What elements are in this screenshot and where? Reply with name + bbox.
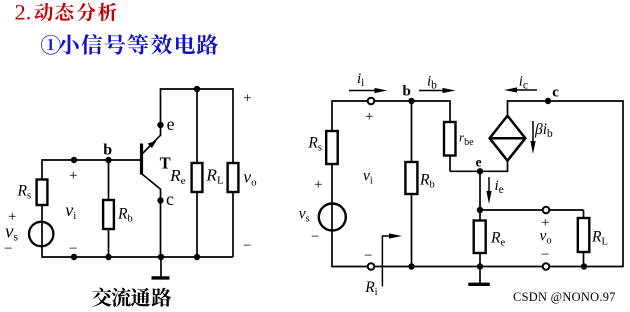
title line 1: 2.动态分析: [15, 0, 117, 25]
resistor Re (right): [474, 221, 486, 254]
wire: rbe bottom to e level: [449, 155, 451, 171]
wire: left edge through Rs and vs: [41, 159, 43, 258]
svg-text:Re: Re: [490, 230, 505, 249]
terminal open circle vi- (bottom): [368, 263, 375, 270]
transistor T: emitter diagonal: [142, 135, 161, 154]
svg-text:T: T: [160, 153, 171, 172]
wire: rbe drop: [449, 101, 451, 123]
resistor Rb (right): [405, 162, 417, 194]
title line 2: ①小信号等效电路: [41, 34, 218, 55]
svg-text:+: +: [541, 215, 549, 231]
wire: Re bottom connection: [196, 191, 198, 257]
resistor Re (left): [192, 163, 203, 192]
wire: Rb bottom to rail: [108, 229, 110, 258]
wire: vo horizontal: [480, 209, 584, 211]
resistor Rb (left): [103, 200, 114, 229]
wire: diamond top stub: [507, 101, 509, 117]
svg-text:RL: RL: [591, 228, 608, 247]
wire: diamond bottom stub: [507, 159, 509, 172]
svg-text:vi: vi: [65, 200, 76, 222]
svg-text:Ri: Ri: [364, 279, 377, 298]
node dot Rb bottom (left): [105, 254, 111, 260]
terminal open circle vo+: [543, 207, 550, 214]
svg-text:+: +: [314, 177, 322, 193]
svg-text:−: −: [311, 229, 319, 245]
wire: Rb drop from b: [411, 101, 413, 163]
wire: e down to vo node: [479, 171, 481, 221]
svg-text:RL: RL: [205, 165, 224, 186]
svg-text:−: −: [69, 241, 77, 257]
svg-text:Rb: Rb: [117, 205, 133, 224]
caption 交流通路: [92, 288, 171, 307]
ground (right): [468, 267, 489, 285]
wire: emitter vertical e to top rail: [160, 89, 162, 136]
node c dot (left): [157, 197, 163, 203]
svg-text:rbe: rbe: [459, 130, 474, 149]
wire: right edge RL branch top: [232, 89, 234, 164]
svg-text:−: −: [4, 241, 12, 257]
source vs (right) circle: [319, 204, 346, 231]
svg-text:ie: ie: [495, 178, 504, 196]
node dot collector/ground junction: [158, 254, 164, 260]
wire: Rb drop from b: [108, 160, 110, 201]
ground (left): [152, 257, 170, 278]
current arrow ib: [419, 88, 456, 93]
resistor Rs (left): [37, 180, 48, 206]
node e dot (right): [477, 168, 483, 174]
svg-text:+: +: [69, 168, 77, 184]
node dot vi+ top: [71, 157, 77, 163]
svg-text:b: b: [403, 84, 411, 100]
svg-text:ii: ii: [357, 71, 364, 89]
resistor Rs (right): [326, 131, 338, 164]
wire: RL bottom stub: [583, 252, 585, 267]
terminal open circle vo-: [543, 263, 550, 270]
source vs (left) circle: [29, 222, 53, 246]
node dot Rb bottom (right): [408, 263, 414, 269]
node b dot (right): [408, 98, 414, 104]
current arrow ie (down): [486, 177, 491, 204]
svg-text:c: c: [552, 85, 559, 101]
svg-text:c: c: [166, 189, 174, 209]
node c dot (right): [545, 98, 551, 104]
node dot vo branch: [477, 207, 483, 213]
node dot vi- bottom: [71, 254, 77, 260]
wire: collector vertical down to rail: [160, 189, 162, 258]
svg-text:βib: βib: [534, 121, 553, 140]
svg-text:Rs: Rs: [307, 135, 322, 154]
svg-text:−: −: [364, 248, 372, 264]
wire: right edge RL branch bottom: [232, 191, 234, 257]
node dot Re bottom (right): [477, 263, 483, 269]
svg-text:−: −: [243, 238, 251, 254]
wire: top left rail: [332, 100, 451, 102]
wire: bottom rail: [42, 256, 233, 258]
svg-text:e: e: [167, 114, 175, 134]
resistor RL (left): [228, 163, 239, 192]
controlled source beta-ib diamond: [490, 116, 526, 161]
current arrow ii: [349, 88, 388, 93]
terminal open circle vi+ (top): [368, 98, 375, 105]
svg-text:ic: ic: [519, 73, 528, 91]
svg-text:ib: ib: [427, 74, 437, 92]
wire: e horizontal: [450, 170, 508, 172]
svg-text:e: e: [476, 154, 482, 169]
svg-text:Re: Re: [169, 166, 186, 187]
node b dot (left): [105, 157, 111, 163]
svg-text:vs: vs: [299, 205, 310, 224]
svg-text:+: +: [8, 209, 16, 225]
wire: left edge through Rs and vs (right circuit): [331, 100, 333, 267]
current arrow ic (leftward): [504, 87, 537, 92]
wire: Rb bottom to rail: [411, 194, 413, 267]
node dot Re bottom (left): [194, 254, 200, 260]
wire: left top rail b-rail: [42, 159, 140, 161]
input resistance Ri marker: [382, 233, 402, 286]
transistor T: collector diagonal: [142, 174, 161, 190]
svg-text:vo: vo: [243, 168, 257, 189]
node dot top rail Re junction (left): [194, 86, 200, 92]
svg-text:+: +: [365, 109, 373, 125]
wire: right edge: [622, 101, 624, 267]
wire: bottom rail: [332, 266, 623, 268]
wire: top right rail: [507, 100, 624, 102]
svg-text:Rb: Rb: [419, 172, 435, 191]
svg-text:−: −: [541, 247, 549, 263]
svg-text:vi: vi: [363, 168, 373, 187]
svg-text:+: +: [243, 90, 251, 106]
node e dot (left): [157, 122, 163, 128]
transistor T: base bar: [140, 144, 143, 175]
resistor RL (right): [578, 218, 590, 252]
wire: RL top stub: [583, 210, 585, 219]
svg-text:CSDN @NONO.97: CSDN @NONO.97: [513, 290, 616, 304]
wire: Re top connection: [196, 89, 198, 164]
current arrow beta-ib (down): [530, 121, 535, 154]
wire: Re bottom to rail: [479, 253, 481, 267]
svg-text:2.: 2.: [15, 0, 32, 25]
transistor T: emitter arrow: [148, 141, 157, 149]
node dot RL bottom (right): [581, 263, 587, 269]
svg-text:Rs: Rs: [17, 183, 32, 202]
resistor rbe: [444, 122, 456, 156]
svg-text:b: b: [103, 142, 112, 159]
wire: top rail of output section: [160, 88, 234, 90]
